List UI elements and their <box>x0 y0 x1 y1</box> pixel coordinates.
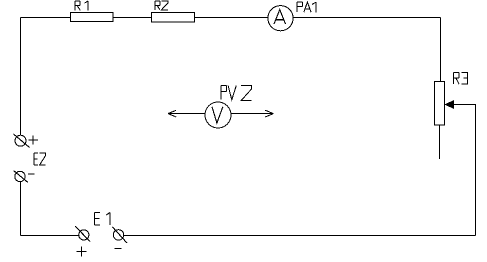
wire E2 - terminal down to bottom-left corner <box>20 181 22 235</box>
terminal E1 plus clamp <box>79 230 89 240</box>
label R2 <box>155 1 168 10</box>
label PV2 <box>221 85 251 100</box>
voltmeter PV2 body <box>205 102 231 128</box>
polarity + of E2 <box>29 136 39 145</box>
resistor R1 body <box>71 13 114 22</box>
terminal E2 plus clamp slash <box>14 134 30 148</box>
wire bottom-left corner to E1 + terminal <box>21 235 79 237</box>
label PA1 <box>297 2 316 12</box>
terminal E1 plus clamp slash <box>75 226 90 241</box>
voltmeter left probe arrow <box>168 110 205 117</box>
polarity - of E2 <box>28 173 35 175</box>
wire top-right corner down to R3 <box>440 18 442 82</box>
ammeter PA1 body <box>268 6 293 31</box>
wire R3 wiper to bottom-right corner <box>454 105 476 236</box>
terminal E1 minus clamp <box>113 230 123 240</box>
label E1 <box>95 212 111 225</box>
wire top-left corner to R1 <box>21 17 71 19</box>
wire E1 - terminal to bottom-right corner <box>124 235 476 237</box>
terminal E1 minus clamp slash <box>112 227 127 243</box>
wire ammeter PA1 to top-right corner <box>293 17 440 19</box>
wire R2 to ammeter PA1 <box>194 17 267 19</box>
terminal E2 plus clamp <box>15 135 26 146</box>
voltmeter letter V <box>212 107 223 123</box>
terminal E2 minus clamp slash <box>14 171 28 183</box>
polarity + of E1 <box>77 246 87 256</box>
label E2 <box>34 153 46 165</box>
label R1 <box>75 1 88 10</box>
voltmeter right probe arrow <box>231 110 273 117</box>
rheostat R3 wiper arrow <box>445 101 454 109</box>
ammeter letter A <box>274 10 286 24</box>
polarity - of E1 <box>115 247 122 249</box>
wire R3 bottom stub (unconnected) <box>439 125 441 159</box>
terminal E2 minus clamp <box>15 171 25 181</box>
label R3 <box>453 72 467 84</box>
resistor R2 body <box>152 13 195 22</box>
rheostat R3 body <box>435 82 445 126</box>
wire left side down to E2 + terminal <box>20 18 22 136</box>
wire R1 to R2 <box>113 17 152 19</box>
